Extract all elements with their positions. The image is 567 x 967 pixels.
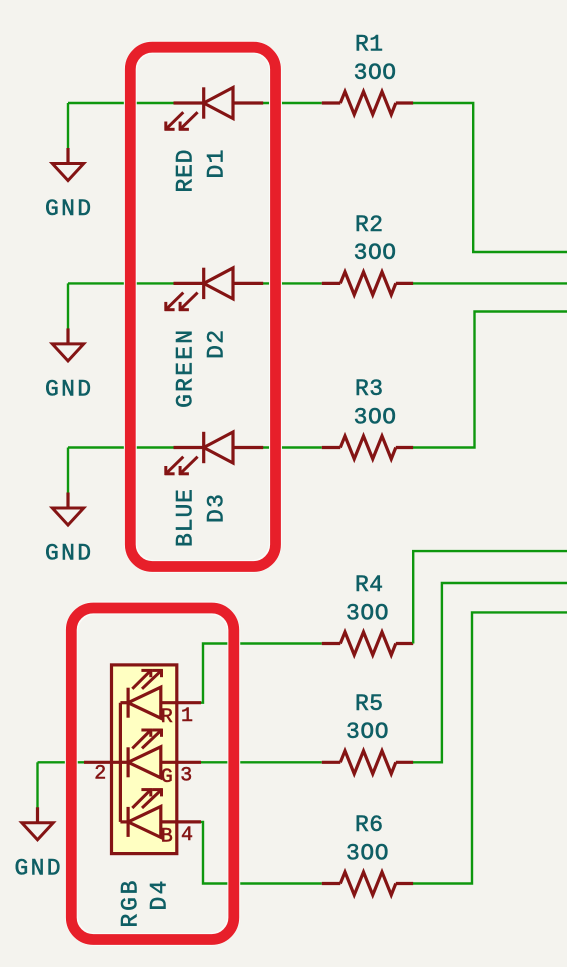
svg-text:D1: D1 [204, 150, 230, 179]
svg-text:GND: GND [45, 376, 91, 402]
svg-text:3OO: 3OO [354, 240, 397, 266]
svg-text:GND: GND [15, 855, 61, 881]
svg-text:R: R [161, 706, 173, 729]
svg-text:GREEN: GREEN [173, 330, 199, 408]
svg-text:4: 4 [181, 824, 193, 847]
svg-text:GND: GND [45, 541, 91, 567]
svg-text:R2: R2 [355, 212, 383, 238]
svg-text:D4: D4 [146, 881, 172, 911]
svg-text:R3: R3 [355, 376, 383, 402]
svg-text:G: G [161, 766, 173, 789]
svg-text:3: 3 [180, 765, 192, 788]
svg-text:3OO: 3OO [346, 840, 389, 866]
svg-text:R6: R6 [355, 812, 383, 838]
svg-text:1: 1 [181, 705, 193, 728]
svg-text:D3: D3 [204, 494, 230, 523]
svg-text:RGB: RGB [117, 881, 143, 928]
svg-text:R4: R4 [355, 572, 383, 598]
svg-text:RED: RED [173, 150, 199, 193]
svg-text:B: B [161, 825, 173, 848]
svg-text:3OO: 3OO [346, 719, 389, 745]
svg-text:R1: R1 [355, 32, 383, 58]
svg-text:3OO: 3OO [354, 60, 397, 86]
svg-text:D2: D2 [204, 330, 230, 359]
svg-text:3OO: 3OO [354, 404, 397, 430]
svg-text:3OO: 3OO [346, 600, 389, 626]
svg-text:GND: GND [45, 196, 91, 222]
svg-text:2: 2 [94, 762, 106, 785]
svg-text:BLUE: BLUE [173, 489, 199, 547]
svg-text:R5: R5 [355, 691, 383, 717]
